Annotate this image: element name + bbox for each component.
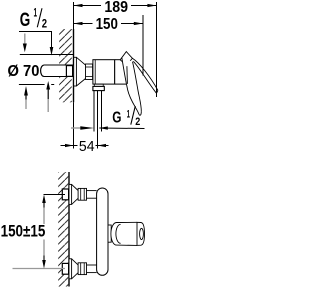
end cap	[137, 222, 145, 245]
supply pipe (G1/2 stub)	[41, 65, 74, 77]
top escutcheon (plan)	[69, 184, 78, 204]
mixer body capsule (plan)	[97, 188, 108, 275]
wire: 189 right extension line	[156, 2, 158, 97]
svg-text:2: 2	[42, 16, 48, 30]
shower outlet neck	[94, 84, 103, 86]
bottom supply elbow box (plan)	[62, 263, 68, 274]
lever grip (plan)	[111, 222, 145, 245]
mixer body (side view)	[93, 60, 115, 84]
svg-text:G: G	[112, 110, 121, 127]
bottom arrow	[42, 260, 46, 269]
wire: wall-face extension line up to dims	[73, 2, 75, 29]
top supply elbow box (plan)	[62, 189, 68, 200]
bottom leader line (gray)	[13, 268, 66, 270]
dia 70 bottom extension line	[19, 84, 45, 86]
arm upper edge	[132, 58, 158, 90]
dimension 54	[61, 138, 109, 155]
grip right edge	[133, 62, 142, 112]
bottom escutcheon (plan)	[69, 259, 78, 279]
dimension 150±15	[1, 195, 65, 269]
wall-face lower extension for 54	[73, 102, 75, 148]
outlet center line / 54 extension	[97, 91, 99, 149]
wall (plan) hatched strip	[58, 172, 69, 287]
dia 70 top extension line	[20, 54, 74, 56]
flow arrow bottom (gray stem)	[46, 81, 50, 112]
wire: leader from G1/2	[19, 32, 52, 49]
svg-text:Ø 70: Ø 70	[8, 63, 40, 80]
union nut (side view)	[86, 64, 93, 80]
arm lower edge	[133, 61, 156, 93]
escutcheon cone	[76, 57, 85, 86]
dia70 bottom dimension arrow	[24, 86, 28, 109]
escutcheon flange (side view)	[74, 57, 77, 86]
dimension 150	[73, 16, 143, 33]
arm tip	[157, 90, 158, 93]
lever handle (side view)	[120, 52, 158, 116]
grip left edge	[122, 58, 139, 115]
svg-text:54: 54	[79, 138, 95, 155]
dimension 189	[73, 0, 156, 16]
label G 1/2 (second, at outlet)	[112, 106, 140, 128]
svg-text:150: 150	[96, 16, 118, 33]
wall (side view) hatched strip	[59, 29, 73, 102]
top union nut (plan)	[78, 188, 86, 200]
bottom spigot (plan)	[87, 265, 97, 273]
svg-text:150±15: 150±15	[1, 221, 46, 240]
gray flow arrow at outlet	[71, 126, 94, 129]
svg-text:1: 1	[127, 108, 130, 120]
grip tip	[139, 112, 141, 116]
cartridge cap (side view, right edge hidden by lever)	[115, 60, 128, 84]
top leader line	[44, 194, 66, 196]
outlet tube walls	[94, 91, 102, 132]
svg-text:189: 189	[104, 0, 128, 16]
top arrow	[42, 195, 46, 204]
cartridge ring (plan)	[108, 225, 111, 242]
svg-text:2: 2	[135, 116, 140, 128]
leader for G1/2 #2	[99, 126, 144, 129]
small ledge under lever body	[127, 85, 136, 87]
flow arrow (gray stem) near G1/2	[23, 34, 27, 53]
grip inner contour	[126, 66, 129, 84]
hub diamond	[120, 52, 132, 66]
wire: 150 right extension line	[142, 15, 144, 76]
top spigot (plan)	[87, 191, 97, 199]
svg-text:1: 1	[34, 6, 38, 20]
label G 1/2 (top left)	[20, 6, 48, 31]
svg-text:G: G	[20, 10, 31, 31]
shower outlet cap nut	[93, 86, 104, 90]
bottom union nut (plan)	[78, 263, 86, 275]
arrowhead of G1/2 leader	[50, 47, 54, 56]
grip (white underlay)	[122, 58, 142, 116]
